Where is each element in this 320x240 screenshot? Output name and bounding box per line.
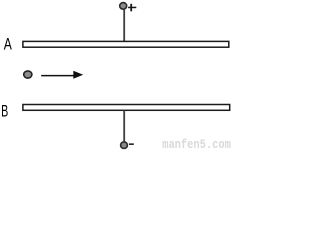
- charged particle: [24, 71, 32, 78]
- plate B (bottom capacitor plate): [23, 105, 230, 111]
- + sign label: [128, 4, 136, 12]
- svg-text:B: B: [1, 102, 8, 120]
- + terminal (positive battery terminal dot): [120, 3, 127, 10]
- wire from plate B down to - terminal: [123, 111, 125, 143]
- - terminal (negative battery terminal dot): [121, 142, 128, 149]
- velocity arrow: [41, 71, 83, 79]
- - sign label: [129, 143, 134, 145]
- svg-text:manfen5.com: manfen5.com: [162, 137, 231, 150]
- wire from + terminal down to plate A: [123, 9, 125, 42]
- svg-text:A: A: [4, 36, 12, 54]
- plate A (top capacitor plate): [23, 41, 229, 47]
